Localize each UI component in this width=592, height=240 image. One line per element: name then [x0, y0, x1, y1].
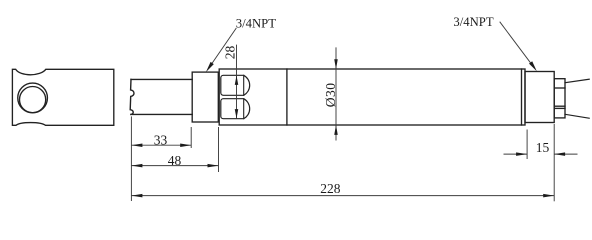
cable gland body [554, 79, 565, 118]
arrowhead dim15 left [516, 152, 527, 156]
arrowhead leader right [529, 61, 537, 71]
body rear step line [521, 69, 523, 125]
dimension line 33 [131, 144, 191, 146]
svg-text:33: 33 [154, 133, 168, 148]
svg-text:48: 48 [168, 153, 182, 168]
arrowhead dim228 right [543, 194, 554, 198]
svg-text:3/4NPT: 3/4NPT [453, 15, 493, 29]
arrowhead dim48 right [208, 164, 219, 168]
front thread section 3/4NPT block [192, 72, 218, 122]
arrowhead leader left [206, 62, 214, 72]
svg-text:28: 28 [223, 45, 238, 59]
svg-text:15: 15 [536, 140, 550, 155]
cable lower line [565, 114, 589, 118]
probe tip break line [130, 79, 134, 114]
arrowhead dim28 bottom [235, 109, 239, 119]
arrowhead dia30 top [334, 59, 338, 69]
extension line left at probe tip start [130, 116, 132, 201]
sensor window 1 [221, 75, 250, 95]
body front section division line [286, 69, 288, 125]
dimension line 15 right part [554, 153, 577, 155]
arrowhead dim48 left [131, 164, 142, 168]
cable gland lower line B [554, 107, 565, 109]
left fitting hole inner chamfer arc [19, 87, 45, 113]
extension line at thread block right for dim 48 [218, 127, 220, 172]
dimension line 48 [131, 165, 218, 167]
left fitting hole outer circle [18, 83, 48, 113]
rear thread section 3/4NPT block [525, 72, 554, 123]
arrowhead dim15 right [554, 152, 565, 156]
extension line at rear block right for dims 15 and 228 [553, 124, 555, 201]
sensor window 2 [221, 99, 250, 119]
probe tip shaft bottom edge [131, 113, 192, 115]
dimension line dia30 vertical [335, 47, 337, 140]
svg-text:228: 228 [320, 181, 341, 196]
cable gland upper line [554, 87, 565, 89]
leader line left 3/4NPT [212, 28, 236, 64]
sensor window 2 chord line [243, 99, 245, 119]
svg-text:3/4NPT: 3/4NPT [236, 16, 276, 30]
cable upper line [565, 79, 589, 83]
dimension line 228 [131, 195, 554, 197]
extension line at rear block left for dim 15 [526, 130, 528, 160]
dimension line 28 vertical [236, 45, 238, 119]
arrowhead dim33 left [131, 143, 142, 147]
dimension line 15 left part [504, 153, 528, 155]
arrowhead dia30 bottom [334, 125, 338, 135]
left fitting body outline [12, 69, 113, 125]
leader line right 3/4NPT [500, 22, 531, 63]
probe tip shaft top edge [131, 78, 192, 80]
arrowhead dim28 top [235, 75, 239, 85]
arrowhead dim228 left [131, 194, 142, 198]
sensor window 1 chord line [243, 75, 245, 95]
arrowhead dim33 right [180, 143, 191, 147]
extension line at thread block left for dim 33 [190, 127, 192, 148]
main body cylinder [219, 69, 525, 125]
cable gland lower line A [554, 105, 565, 107]
svg-text:Ø30: Ø30 [323, 83, 338, 108]
